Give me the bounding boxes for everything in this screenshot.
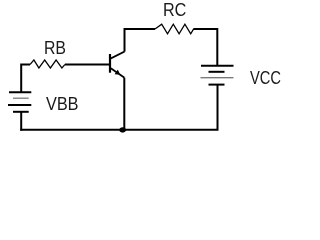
- wire: VCC bottom to ground rail: [217, 85, 219, 130]
- label VBB: [46, 95, 79, 113]
- resistor RB: [30, 60, 65, 68]
- battery VCC plate 3 (long, gray): [201, 77, 234, 79]
- battery VCC plate 2 (short): [209, 71, 225, 73]
- battery VBB plate 4 (short): [13, 111, 29, 113]
- battery VBB plate 1 (long): [9, 91, 31, 93]
- junction dot: [119, 127, 126, 132]
- label RB: [44, 39, 66, 57]
- wire: VBB bottom to rail: [20, 112, 22, 131]
- transistor Q1 emitter stroke: [111, 68, 125, 77]
- wire top: collector corner to VCC corner: [125, 29, 156, 52]
- battery VCC plate 4 (short): [209, 84, 225, 86]
- battery VCC plate 1 (long): [201, 65, 234, 67]
- label VCC: [250, 69, 281, 87]
- wire top right: RC to VCC corner: [193, 29, 217, 65]
- transistor Q1 collector stroke: [111, 52, 125, 59]
- transistor Q1 emitter arrow: [115, 70, 121, 75]
- resistor RC: [155, 24, 194, 34]
- label RC: [163, 1, 186, 19]
- transistor Q1 base bar: [109, 54, 111, 73]
- wire: emitter down to rail: [123, 78, 125, 130]
- battery VBB plate 2 (short, gray): [13, 97, 29, 99]
- wire: VBB top up and right to RB: [21, 65, 30, 93]
- wire bottom rail: [20, 129, 218, 131]
- wire: RB to base: [65, 64, 110, 66]
- battery VBB plate 3 (long): [8, 104, 31, 106]
